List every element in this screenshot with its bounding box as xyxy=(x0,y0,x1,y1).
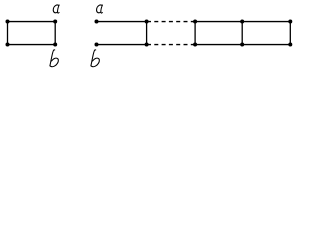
wire: right end vertical xyxy=(289,22,291,45)
wire: first rung vertical xyxy=(146,22,148,45)
label b (ladder) xyxy=(91,50,99,67)
wire: bottom edge second to third rung xyxy=(195,44,242,46)
wire: ladder bottom edge b to first rung xyxy=(97,44,147,46)
wire: dashed top continuation xyxy=(148,21,194,23)
node: right end top xyxy=(288,20,292,24)
wire: dashed bottom continuation xyxy=(148,44,194,46)
label a (ladder) xyxy=(96,5,103,13)
node: second rung bottom xyxy=(193,43,197,47)
wire: second rung vertical xyxy=(194,22,196,45)
label b (left figure) xyxy=(50,50,58,67)
wire: bottom edge third rung to right end xyxy=(242,44,290,46)
wire: third rung vertical xyxy=(241,22,243,45)
wire: ladder top edge a to first rung xyxy=(97,21,147,23)
wire: left square bottom edge xyxy=(8,44,56,46)
label a (left figure) xyxy=(53,5,60,13)
node: left square top-left vertex xyxy=(6,20,10,24)
node a (ladder top-left) xyxy=(95,20,99,24)
node b (ladder bottom-left) xyxy=(95,43,99,47)
node: second rung top xyxy=(193,20,197,24)
node b (left square bottom-right vertex) xyxy=(53,43,57,47)
wire: left square top edge xyxy=(8,21,56,23)
wire: top edge second to third rung xyxy=(195,21,242,23)
node: right end bottom xyxy=(288,43,292,47)
wire: left square right edge xyxy=(54,22,56,45)
wire: left square left edge xyxy=(7,22,9,45)
node: left square bottom-left vertex xyxy=(6,43,10,47)
node a (left square top-right vertex) xyxy=(53,20,57,24)
node: first rung bottom xyxy=(145,43,149,47)
node: first rung top xyxy=(145,20,149,24)
wire: top edge third rung to right end xyxy=(242,21,290,23)
node: third rung top xyxy=(240,20,244,24)
node: third rung bottom xyxy=(240,43,244,47)
